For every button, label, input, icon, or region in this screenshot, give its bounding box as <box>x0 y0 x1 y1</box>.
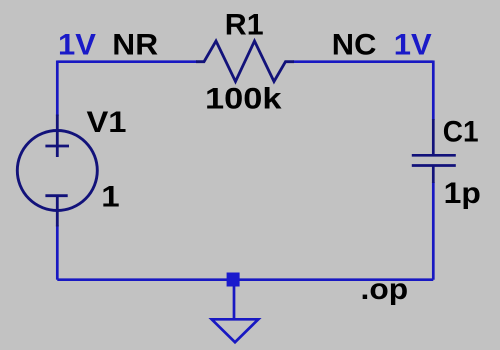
svg-text:.op: .op <box>361 273 409 306</box>
svg-text:1V: 1V <box>394 29 432 62</box>
wire top-right segment NC <box>293 60 433 63</box>
svg-text:NR: NR <box>112 29 158 62</box>
svg-text:NC: NC <box>332 29 377 62</box>
wire top-left segment NR <box>57 60 197 63</box>
wire left vertical upper <box>56 61 59 117</box>
svg-text:R1: R1 <box>225 8 264 41</box>
wire right vertical upper <box>432 61 435 121</box>
voltage source V1 <box>17 115 97 227</box>
ground <box>212 286 259 342</box>
svg-text:V1: V1 <box>87 106 127 139</box>
wire bottom segment <box>57 278 433 281</box>
wire right vertical lower <box>432 182 435 280</box>
resistor R1 <box>196 41 294 82</box>
svg-text:1: 1 <box>101 180 119 213</box>
svg-text:1p: 1p <box>444 177 481 210</box>
wire left vertical lower <box>56 225 59 280</box>
capacitor C1 <box>412 119 456 183</box>
svg-text:100k: 100k <box>205 82 282 115</box>
svg-text:1V: 1V <box>58 29 96 62</box>
svg-text:C1: C1 <box>443 115 479 148</box>
junction node <box>227 273 240 287</box>
